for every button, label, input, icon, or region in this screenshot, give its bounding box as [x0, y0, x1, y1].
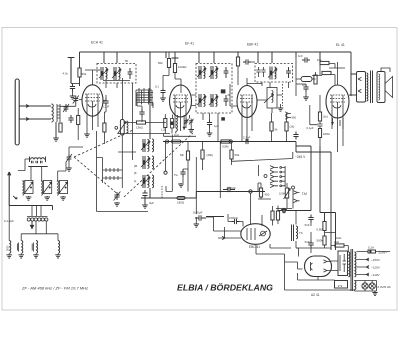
wire caps drop — [209, 113, 211, 132]
tube V4 EL41 envelope — [326, 85, 349, 118]
wire V3 to detector can — [257, 82, 281, 113]
capacitor at bus corner — [293, 132, 298, 140]
band filter tuned circuit 1 — [22, 181, 33, 196]
IFT2 lower coil B — [209, 94, 218, 107]
ratio detector arrow — [264, 94, 274, 103]
coil under V2 — [176, 119, 178, 132]
IFT2 lower capacitor — [224, 95, 229, 106]
tone capacitor C19 — [308, 240, 313, 248]
resistor R6 100k top — [173, 64, 176, 73]
capacitor C21 — [303, 84, 308, 92]
wire center components — [183, 142, 203, 192]
switch node circle — [264, 175, 267, 178]
ground under antenna coil — [53, 137, 59, 141]
oscillator coil pack unit 1 — [141, 139, 150, 152]
ground under coupling cap — [194, 223, 200, 227]
speaker secondary winding — [379, 74, 380, 100]
ground coil 4 — [55, 254, 61, 258]
wire right vertical bus 4 — [325, 213, 336, 251]
output transformer primary box — [357, 72, 366, 103]
oscillator coil pack unit 3b — [152, 175, 154, 188]
wire rail stubs down — [104, 52, 320, 66]
wavechange switch comb B — [103, 176, 122, 180]
IFT2 primary coil — [197, 66, 206, 79]
wire junction to R1 — [71, 83, 80, 85]
svg-text:AZ 41: AZ 41 — [311, 293, 320, 297]
core marker IFT2 lower — [221, 117, 225, 120]
node circle on mid bus left — [165, 140, 168, 143]
wire rectifier plates to filter — [331, 261, 338, 271]
svg-text:0,1A: 0,1A — [368, 246, 374, 250]
svg-text:2200pF: 2200pF — [227, 186, 237, 190]
wire left drop from rail — [79, 52, 81, 68]
svg-text:1,2k: 1,2k — [161, 128, 167, 132]
tuning gang dashed linkage right — [124, 133, 193, 197]
core marker IFT2 — [221, 89, 226, 93]
ground under C16 — [178, 183, 184, 187]
ground switch bus — [281, 209, 287, 213]
variable capacitor gang section — [114, 192, 121, 201]
wire antenna bottom bus — [9, 206, 52, 211]
wire switch to bus — [259, 165, 262, 188]
wire volume pot — [286, 183, 288, 188]
svg-text:13kΩ: 13kΩ — [136, 126, 144, 130]
capacitor C22 cathode — [318, 124, 323, 126]
resistor R10 center — [201, 150, 204, 159]
svg-text:0,05μF: 0,05μF — [193, 211, 203, 215]
dashed can edge — [282, 84, 284, 106]
wire right vertical bus 1 — [278, 146, 311, 211]
wire R1 to tube — [79, 77, 81, 86]
power transformer filter box — [338, 251, 348, 276]
tube V3 internal electrodes — [240, 95, 254, 142]
svg-text:5nF: 5nF — [305, 240, 310, 244]
svg-text:EBC 41: EBC 41 — [249, 245, 260, 249]
output transformer core — [371, 71, 373, 104]
wire AF coupling from volume — [195, 157, 197, 214]
output transformer primary taps — [358, 77, 361, 92]
wire lower AF bus — [141, 192, 265, 199]
IFT1 primary coil — [99, 67, 108, 80]
dial lamp connector block — [27, 217, 48, 222]
wire trimmer leads — [69, 147, 83, 167]
IFT3 trimmer pair — [256, 67, 260, 77]
wire antenna tap 1 — [19, 105, 51, 108]
filter capacitor pair inside box — [340, 254, 346, 272]
tube V5 internal electrodes — [247, 228, 267, 240]
wire detector AVC line — [206, 216, 224, 218]
ratio detector can — [267, 88, 277, 109]
svg-text:0,1μF: 0,1μF — [307, 126, 314, 130]
band filter tuned circuit 2 — [41, 181, 52, 196]
capacitor C20 1nF — [302, 57, 310, 62]
svg-text:~150V: ~150V — [371, 258, 380, 262]
ground under C8 — [160, 97, 166, 101]
trimmer pair under V2 — [184, 119, 194, 125]
svg-text:500k: 500k — [317, 239, 324, 243]
IFT3 trimmer pair b — [261, 67, 265, 77]
svg-text:EF 41: EF 41 — [185, 42, 194, 46]
ground coil 1 — [6, 254, 12, 258]
wire V2 cathode drops — [165, 114, 191, 134]
AF choke winding — [296, 226, 298, 239]
svg-text:∨∨: ∨∨ — [338, 284, 344, 288]
resistor R24 cathode lower — [318, 129, 321, 138]
output transformer primary winding — [367, 73, 368, 101]
pickup switch contact column — [293, 189, 300, 203]
wire under V1 to ground — [86, 127, 88, 133]
resistor R7 under V2 — [164, 119, 167, 128]
ground under trimmer pair — [188, 129, 194, 133]
wire heater rail — [354, 281, 376, 292]
ground under tuned circuit 3 — [60, 196, 66, 200]
svg-text:180Ω: 180Ω — [177, 201, 185, 205]
wire switch frame — [97, 131, 149, 212]
capacitor C15 2200pF — [223, 187, 235, 192]
FM front-end coil row — [28, 157, 47, 167]
test point node below bus — [165, 142, 167, 172]
wire C4 ground — [72, 84, 74, 96]
wire EL41 grid area — [296, 58, 335, 96]
wire speaker top — [381, 68, 390, 72]
tube V1 internal electrodes — [85, 94, 100, 130]
resistor R5 50k top — [167, 59, 170, 68]
resistor R21 grid EL41 — [322, 71, 331, 74]
resistor R14 on mid bus — [221, 140, 230, 143]
svg-text:[L: [L — [134, 179, 137, 183]
wire R3 — [104, 107, 106, 145]
ground under FM trimmer — [66, 167, 72, 171]
svg-text:100kΩ: 100kΩ — [178, 65, 187, 69]
svg-text:1kΩ: 1kΩ — [174, 133, 179, 137]
svg-text:(26k): (26k) — [207, 153, 214, 157]
wire AF bus corner — [166, 186, 172, 192]
IFT1 tuning capacitor — [128, 68, 133, 79]
ground under gang section — [114, 202, 120, 206]
tube V5 detector EABC80 envelope — [241, 224, 270, 245]
oscillator coil pack unit 1b — [152, 139, 154, 152]
resistor R9 center — [186, 151, 189, 160]
IF trap coil 3 — [36, 241, 38, 254]
wire under ladder — [137, 106, 142, 122]
test point circle — [164, 171, 167, 174]
wire V4 top stub — [329, 62, 345, 85]
wire block feed bus — [9, 206, 58, 241]
svg-text:450: 450 — [265, 193, 270, 197]
grid capacitor 1500pF — [232, 219, 240, 224]
capacitor C13 on mid bus — [242, 139, 252, 144]
IFT2 tuning capacitor — [224, 67, 229, 78]
capacitor C14 top — [207, 120, 212, 128]
ground under C14 — [207, 132, 213, 136]
svg-text:T.M: T.M — [302, 192, 308, 196]
wire bottom bus V1 stage — [118, 133, 170, 135]
power transformer HT secondary winding — [354, 252, 356, 277]
IFT2 lower coil A — [197, 94, 206, 107]
wire R16b bottom — [258, 197, 271, 199]
wire IFT3 to V4 area — [277, 94, 282, 96]
svg-text:4,7p: 4,7p — [63, 72, 69, 76]
switch ground bus — [276, 198, 293, 209]
wire IFT3 bottom drops — [262, 82, 289, 88]
svg-text:ZF - AM 468 kHz / ZF - FM: ZF - AM 468 kHz / ZF - FM 10,7 MHz — [21, 287, 89, 291]
power transformer core — [351, 249, 353, 291]
decoupling capacitor on AF bus — [143, 190, 148, 204]
IF trap coil 2 — [21, 241, 23, 254]
antenna coil L1 — [52, 104, 54, 122]
capacitor C12 — [243, 59, 251, 64]
svg-text:1μF: 1μF — [214, 124, 219, 128]
mains fuse resistor — [368, 250, 376, 253]
svg-text:2,7nF: 2,7nF — [243, 136, 251, 140]
tube V1 ECH41 envelope — [82, 85, 103, 116]
svg-text:560: 560 — [292, 116, 297, 120]
resistor R25 mixer cathode — [77, 116, 80, 125]
wire V5 left leads — [206, 217, 241, 240]
antenna coil L2 ladder — [57, 104, 60, 122]
ratio detector coil — [272, 91, 274, 103]
svg-text:6,3V/0,3A: 6,3V/0,3A — [378, 285, 391, 289]
oscillator coil pack unit 2b — [152, 156, 154, 169]
power transformer primary winding — [348, 252, 350, 277]
svg-text:50k: 50k — [235, 153, 240, 157]
wire V1 top stub — [85, 70, 100, 85]
svg-text:1500pF: 1500pF — [229, 216, 238, 220]
FM trimmer — [66, 154, 72, 162]
wire under V1 components — [103, 78, 133, 160]
IF transformer T2 dashed can — [196, 64, 232, 114]
svg-text:[K: [K — [134, 171, 137, 175]
svg-text:50k: 50k — [82, 72, 87, 76]
tube V6 rectifier AZ41 envelope — [305, 256, 332, 277]
svg-text:(1k): (1k) — [323, 115, 328, 119]
wire rectifier heater loop — [285, 262, 355, 290]
capacitor C3 grid coupling — [68, 58, 75, 84]
svg-text:0,5M: 0,5M — [279, 192, 286, 196]
resistor R13 — [285, 122, 288, 131]
svg-text:50k: 50k — [158, 61, 163, 65]
resistor R11 — [236, 57, 239, 66]
svg-text:Tb: Tb — [299, 231, 303, 235]
IF trap coil 4 — [58, 241, 60, 254]
tube V6 internal electrodes — [310, 260, 331, 272]
external antenna input arrow — [8, 172, 11, 206]
svg-text:0,5M: 0,5M — [317, 228, 324, 232]
wire rectifier top stubs — [296, 248, 311, 257]
coil 2 core ticks — [17, 243, 18, 252]
wire pot column down — [118, 135, 136, 168]
svg-text:0,5M: 0,5M — [222, 145, 229, 149]
oscillator coil pack unit 3 — [141, 175, 150, 188]
tube V2 EF41 envelope — [170, 85, 192, 117]
wire V5 top leads — [262, 206, 278, 227]
AF choke core — [292, 225, 294, 242]
svg-text:1nF: 1nF — [298, 54, 303, 58]
tube V3 EBF41 envelope — [237, 86, 257, 118]
volume potentiometer — [284, 188, 291, 199]
RF choke Dr — [301, 77, 312, 82]
svg-text:5nF: 5nF — [305, 223, 310, 227]
wire mixer grid — [60, 100, 83, 107]
capacitor C7 — [139, 109, 144, 117]
dial lamp 1 — [362, 283, 368, 289]
resistor R19 tone — [323, 222, 326, 231]
ground coil 3 — [33, 254, 39, 258]
pickup switch circle — [292, 186, 295, 189]
svg-text:1kΩ: 1kΩ — [334, 240, 340, 244]
wire 245V feed — [220, 142, 292, 199]
wire band filter risers — [31, 162, 66, 181]
wire oscillator column — [149, 66, 151, 198]
wire V2 cathode down line — [171, 135, 173, 192]
trimmer capacitor C2 — [73, 96, 79, 104]
node circle on mid bus — [229, 140, 232, 143]
ground under decoupling cap — [142, 204, 148, 208]
ground under C4 — [70, 95, 76, 99]
switch ladder S1 between V1 and IFT2 — [136, 88, 152, 106]
wire R15 drop — [231, 142, 233, 166]
resistor R18 — [276, 211, 279, 220]
ground under V1 — [84, 133, 90, 137]
coil 3 core ticks — [32, 243, 33, 252]
svg-text:ECH 41: ECH 41 — [91, 41, 103, 45]
svg-text:3000: 3000 — [7, 245, 10, 251]
ground under C21 — [303, 96, 309, 100]
speaker voice-coil box — [377, 72, 385, 103]
resistor R4 13k horizontal — [137, 121, 146, 124]
wire B+ from resistor — [331, 246, 348, 253]
svg-text:0,1: 0,1 — [155, 85, 159, 89]
ground heater — [372, 291, 377, 296]
ground arrow under V4 pin — [331, 122, 334, 125]
resistor R16b 450 — [259, 188, 262, 197]
IFT1 secondary coil — [112, 67, 121, 80]
resistor R1 — [78, 68, 81, 77]
ground arrow under V2 — [183, 127, 186, 130]
svg-text:~125V: ~125V — [371, 266, 380, 270]
svg-text:3μF: 3μF — [149, 201, 154, 205]
wire R25 leads — [77, 108, 79, 140]
svg-text:(1k): (1k) — [290, 125, 295, 129]
resistor R2 below mixer — [59, 123, 62, 132]
trimmer capacitor C1 — [63, 104, 69, 112]
detector switch contacts — [285, 112, 291, 119]
ferrite rod antenna — [15, 79, 19, 145]
resistor R harmonics on AF bus — [177, 197, 185, 200]
wire coil to ground — [55, 122, 57, 137]
svg-text:Dr: Dr — [302, 83, 305, 87]
ground under tuned circuit 1 — [26, 196, 32, 200]
heater winding — [354, 281, 356, 290]
wire right vertical bus 2 — [320, 146, 336, 213]
wire top B+ rail — [80, 51, 352, 53]
ground under detector can — [278, 107, 284, 111]
svg-text:50: 50 — [125, 59, 129, 63]
wire EL41 cathode — [310, 95, 343, 152]
svg-text:~110V: ~110V — [371, 273, 380, 277]
tube V2 internal electrodes — [173, 95, 188, 131]
wire grid cap leads — [228, 214, 243, 227]
heater bus V2 to V3 — [164, 134, 197, 137]
electrolytic cap under V2 — [171, 119, 174, 129]
band switch contact column — [270, 166, 278, 188]
wire AF line to V5 grid — [251, 183, 262, 224]
wire V2 plate to IFT2 — [192, 95, 197, 106]
ground coil 2 — [18, 254, 24, 258]
wire V3 top stub — [247, 78, 262, 86]
wire FM coil left lead — [18, 159, 30, 171]
capacitor C6 plate — [103, 98, 108, 106]
wire 13k link — [124, 122, 166, 124]
capacitor top bar over R6 — [172, 58, 179, 64]
wire R5 R6 drops — [163, 52, 181, 93]
resistor R15 — [230, 150, 233, 159]
resistor R23 cathode EL41 — [318, 112, 321, 121]
wire R11 drop — [238, 62, 255, 85]
IFT3 tuning capacitor — [286, 67, 291, 78]
wire IFT2 bottom drops — [203, 113, 218, 142]
junction node on AF line — [249, 190, 252, 193]
resistor R12 — [270, 122, 273, 131]
ground arrow under block — [30, 222, 33, 229]
capacitor C17 — [280, 208, 288, 213]
wire right vertical bus 3 — [330, 152, 332, 250]
detector coupling capacitor 0.05uF — [195, 215, 206, 221]
wire B+ drop to output transformer — [351, 52, 356, 96]
dial lamp 2 — [369, 283, 375, 289]
tone capacitor C18 — [308, 215, 313, 223]
wire rectifier B+ resistor — [335, 244, 344, 247]
resistor R17 — [271, 211, 274, 220]
resistor R3 below V1 — [103, 123, 106, 132]
svg-text:EBF 41: EBF 41 — [247, 43, 258, 47]
wire tone network — [256, 211, 336, 263]
wire mains taps — [357, 252, 391, 277]
capacitor C8 grid leak — [161, 89, 166, 98]
tuning gang dashed linkage left — [74, 157, 120, 196]
tube V4 internal electrodes — [330, 95, 345, 132]
svg-text:ELBIA / BÖRDEKLANG: ELBIA / BÖRDEKLANG — [177, 283, 273, 293]
capacitor C5 — [68, 115, 73, 123]
band filter tuned circuit 3 — [57, 181, 68, 196]
wire mid AVC bus — [163, 141, 296, 143]
wire V3 right drops — [272, 113, 287, 142]
capacitor C16 center — [180, 169, 185, 177]
wire IFT2 to V3 grid — [228, 84, 238, 106]
svg-text:~245 V: ~245 V — [295, 155, 306, 159]
svg-text:10k: 10k — [317, 58, 322, 62]
band switch contact dots — [280, 166, 285, 187]
resistor R20 screen — [320, 61, 329, 64]
ladder network below IFT1 — [137, 91, 153, 109]
tuning gang dashed linkage upper — [74, 130, 133, 157]
capacitor C4 — [70, 84, 75, 92]
resistor R22 — [314, 75, 317, 84]
wire coupling cap ground drop — [195, 217, 197, 223]
IF transformer T1 dashed can — [97, 64, 136, 84]
oscillator coil pack unit 2 — [141, 156, 150, 169]
IFT3 primary coil — [268, 67, 277, 80]
wire V4 plate to transformer — [349, 94, 357, 96]
svg-text:EL 41: EL 41 — [336, 43, 345, 47]
ground under tuned circuit 2 — [44, 196, 50, 200]
svg-text:180Ω: 180Ω — [323, 132, 330, 136]
antenna arrow small — [13, 196, 17, 199]
IF transformer T3 dashed can — [255, 64, 293, 83]
svg-text:Mk: Mk — [180, 153, 184, 157]
wire antenna tap 2 — [19, 118, 51, 121]
wire mid bus right end corner — [296, 142, 331, 153]
